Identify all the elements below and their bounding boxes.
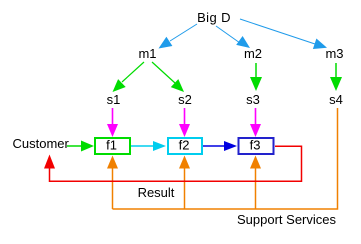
svg-text:f1: f1 (106, 138, 117, 153)
svg-text:s3: s3 (246, 92, 260, 107)
svg-text:s1: s1 (107, 92, 121, 107)
svg-text:Customer: Customer (13, 136, 70, 151)
svg-text:Support Services: Support Services (237, 212, 336, 227)
svg-text:Big D: Big D (197, 10, 231, 25)
svg-text:f2: f2 (179, 138, 190, 153)
svg-text:s4: s4 (329, 92, 343, 107)
svg-text:m2: m2 (244, 46, 262, 61)
svg-text:m1: m1 (138, 46, 156, 61)
svg-text:s2: s2 (178, 92, 192, 107)
svg-text:m3: m3 (325, 46, 343, 61)
svg-text:f3: f3 (250, 138, 261, 153)
svg-text:Result: Result (138, 185, 175, 200)
